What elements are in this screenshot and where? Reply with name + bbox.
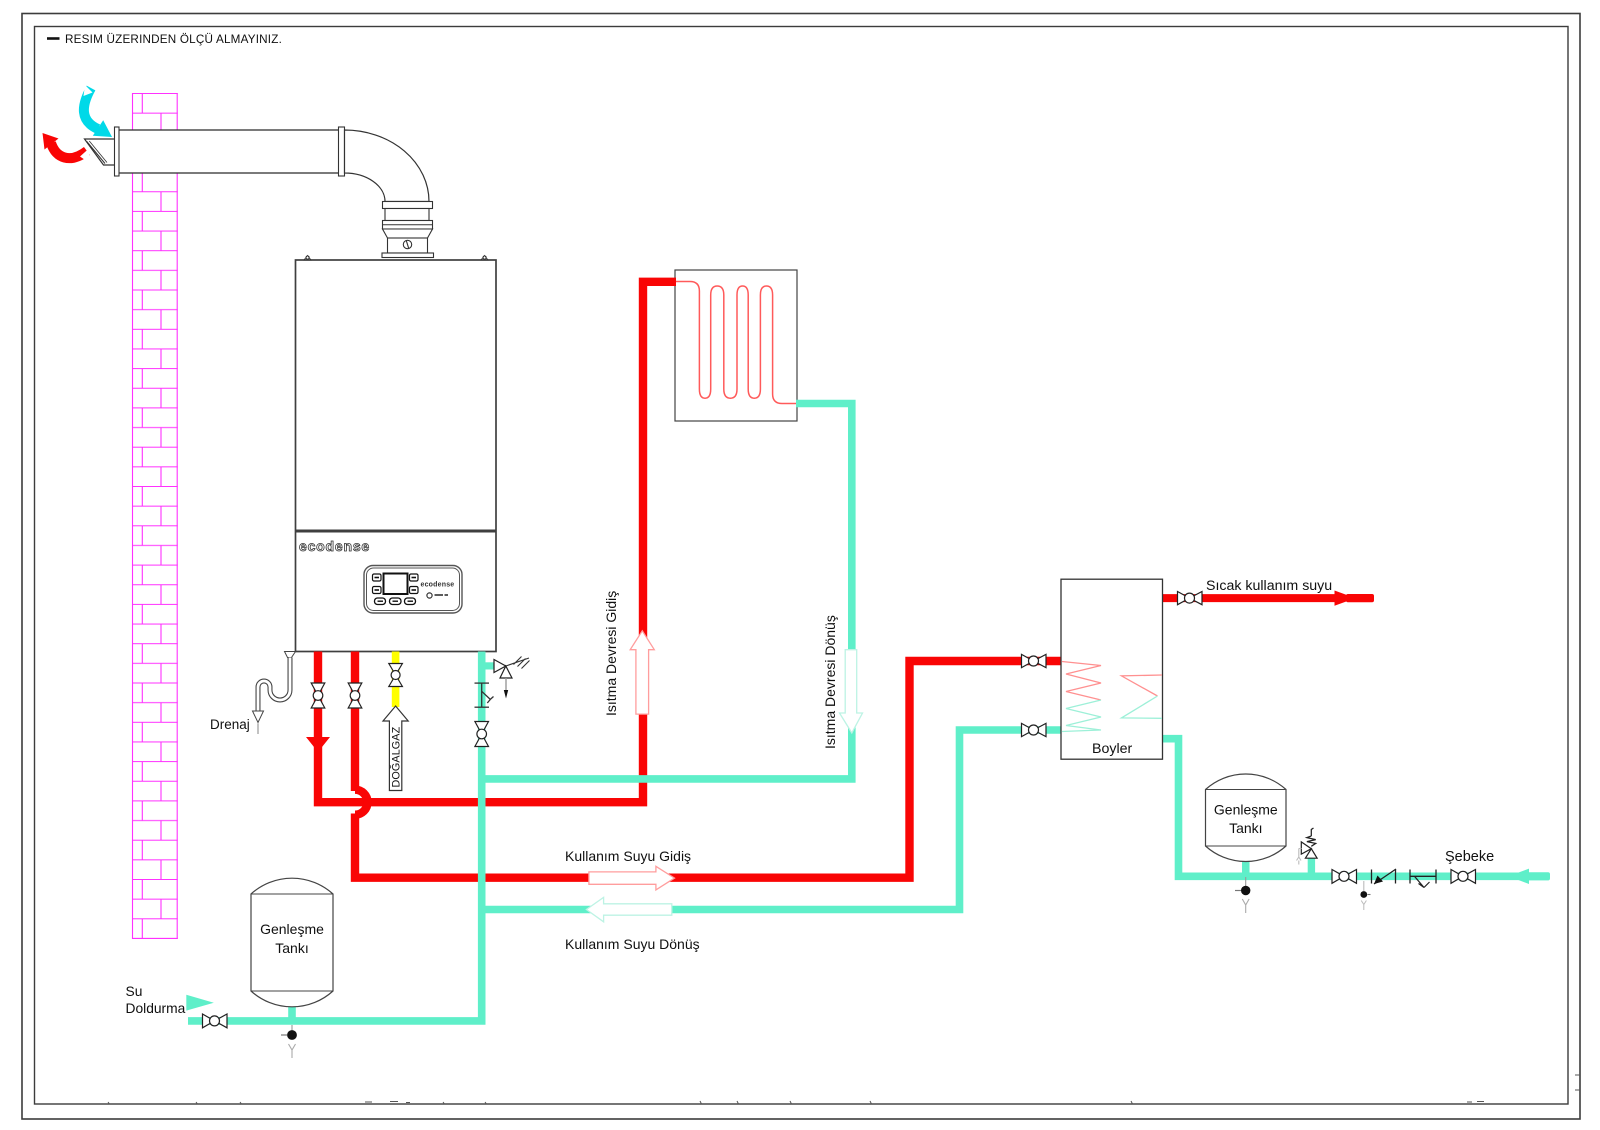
check symbol on boiler return riser — [475, 683, 494, 707]
strainer on mains — [1410, 870, 1436, 888]
drain cock under left tank — [281, 1025, 297, 1058]
boyler left coil red — [1062, 662, 1101, 701]
relief valve right assembly — [1297, 828, 1318, 865]
gas pipe (yellow) — [392, 652, 400, 708]
svg-text:Isıtma Devresi Dönüş: Isıtma Devresi Dönüş — [822, 615, 838, 749]
DOGALGAZ arrow label — [383, 706, 408, 791]
flue intake arrow (cyan) — [84, 85, 113, 137]
svg-text:Drenaj: Drenaj — [210, 717, 250, 732]
header dash — [47, 37, 60, 40]
su doldurma direction arrow — [186, 995, 214, 1011]
expansion tank left — [251, 878, 333, 1007]
flue horizontal duct — [117, 130, 339, 173]
white flow arrow: DHW supply right — [589, 866, 675, 890]
svg-text:ecodense: ecodense — [421, 582, 455, 589]
svg-text:Kullanım Suyu Gidiş: Kullanım Suyu Gidiş — [565, 848, 691, 864]
safety relief valve near boiler — [494, 657, 530, 699]
valve on DHW primary supply (red pipe 2) — [348, 683, 362, 708]
valve on gas pipe — [389, 664, 403, 687]
valve on boiler return riser — [475, 722, 489, 747]
valve on filling line — [203, 1014, 228, 1028]
radiator box — [675, 270, 797, 421]
radiator coil — [676, 282, 796, 404]
brick wall — [132, 93, 178, 939]
safety valve stub near boiler — [481, 662, 494, 669]
svg-text:Tankı: Tankı — [275, 940, 308, 956]
flue vertical pipe — [385, 209, 429, 221]
flue exhaust arrow (red) — [43, 133, 90, 163]
expansion tank stub right — [1242, 860, 1250, 874]
flue terminal cap — [85, 139, 116, 165]
valve on heating supply (red pipe 1) — [311, 683, 325, 708]
valve on DHW return into boyler — [1022, 723, 1047, 736]
hot water outlet flow arrow — [1335, 591, 1375, 606]
pipe: heating supply from boiler (red) — [318, 282, 676, 802]
flue boiler adapter — [388, 238, 428, 253]
flue ring band — [383, 221, 433, 230]
boiler body — [296, 260, 497, 652]
pipe: DHW return line (cyan) — [482, 730, 1062, 910]
expansion tank right — [1206, 774, 1287, 862]
flue taper — [383, 229, 433, 238]
flue base flange — [382, 253, 434, 258]
su doldurma label — [126, 984, 186, 1016]
pipe bridge hop over heating supply — [355, 790, 368, 815]
svg-text:Tankı: Tankı — [1229, 820, 1262, 836]
sebeke valve 2 — [1451, 870, 1476, 884]
svg-text:Boyler: Boyler — [1092, 741, 1132, 757]
svg-text:Isıtma Devresi Gidiş: Isıtma Devresi Gidiş — [603, 591, 619, 716]
expansion tank stub left — [288, 1003, 296, 1018]
valve on hot water outlet — [1178, 592, 1203, 605]
drain cock under right tank — [1235, 877, 1250, 913]
svg-text:Sıcak kullanım suyu: Sıcak kullanım suyu — [1206, 578, 1332, 594]
pipe: boiler cold/return riser (cyan) — [188, 652, 482, 1021]
white flow arrow: DHW return left — [586, 897, 671, 921]
boyler left coil cyan — [1062, 700, 1101, 732]
relief valve stub right — [1308, 859, 1315, 875]
white flow arrow: heating supply up — [630, 631, 654, 714]
boyler tank — [1061, 579, 1163, 759]
sebeke valve 1 — [1332, 870, 1357, 884]
drain cock after sebeke valve — [1360, 881, 1370, 910]
boiler control panel — [364, 566, 462, 614]
pipe: DHW primary supply to boyler (red) — [355, 652, 1062, 878]
svg-text:Şebeke: Şebeke — [1445, 849, 1494, 865]
pipe: heating return radiator to boiler (cyan) — [482, 404, 852, 779]
svg-text:Kullanım Suyu Dönüş: Kullanım Suyu Dönüş — [565, 936, 700, 952]
pipe: boyler outlet to mains line (cyan) — [1163, 739, 1550, 877]
svg-text:Doldurma: Doldurma — [126, 1001, 186, 1016]
flue cap end plate — [115, 127, 120, 176]
white flow arrow: heating return down — [840, 650, 863, 733]
drain trap pipe — [253, 652, 296, 735]
flue elbow collar — [383, 202, 433, 209]
svg-text:Genleşme: Genleşme — [260, 921, 324, 937]
boiler top screw left — [304, 256, 311, 261]
svg-text:ecodense: ecodense — [299, 538, 370, 554]
flue ring flange — [339, 127, 345, 176]
boiler separator line — [296, 530, 497, 533]
svg-text:DOĞALGAZ: DOĞALGAZ — [389, 726, 402, 787]
svg-text:Su: Su — [126, 984, 143, 999]
valve on DHW supply into boyler — [1022, 654, 1047, 667]
border artifact ticks — [108, 1075, 1580, 1104]
boiler top screw right — [481, 256, 488, 261]
mains inlet flow arrow (sebeke) — [1509, 869, 1551, 884]
boyler right coil red — [1122, 675, 1163, 696]
pipe: hot water outlet from boyler (red) — [1163, 594, 1336, 602]
svg-text:Genleşme: Genleşme — [1214, 802, 1278, 818]
flue elbow — [345, 130, 430, 202]
svg-text:RESIM ÜZERINDEN ÖLÇÜ ALMAYINIZ: RESIM ÜZERINDEN ÖLÇÜ ALMAYINIZ. — [65, 33, 282, 46]
boyler right coil cyan — [1122, 696, 1163, 718]
check valve on mains — [1372, 869, 1397, 884]
flow arrow on heating supply drop — [306, 737, 330, 752]
